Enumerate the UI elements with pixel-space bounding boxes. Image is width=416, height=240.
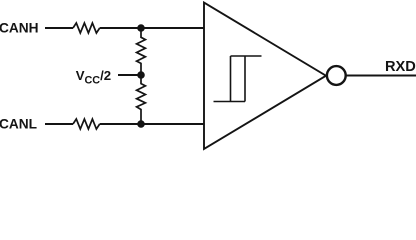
svg-text:CANL: CANL <box>0 117 37 132</box>
svg-text:VCC/2: VCC/2 <box>76 68 111 86</box>
resistor R2 (CANL series) <box>73 119 100 129</box>
svg-text:RXD: RXD <box>385 59 416 75</box>
op-amp U1 comparator triangle <box>204 3 326 149</box>
node CANL label <box>0 117 37 132</box>
resistor R1 (CANH series) <box>73 23 100 33</box>
node A junction dot (CANH) <box>137 24 145 32</box>
resistor R3 (upper divider half) <box>137 28 146 75</box>
node RXD label <box>385 59 416 75</box>
inversion bubble <box>327 66 346 85</box>
wire CANL lead <box>45 123 73 125</box>
wire VCC/2 stub <box>118 74 141 76</box>
node CANH label <box>0 21 39 36</box>
resistor R4 (lower divider half) <box>137 75 146 124</box>
node VCC/2 label <box>76 68 111 86</box>
wire R1 to comparator input <box>100 27 204 29</box>
wire R2 to comparator input <box>100 123 204 125</box>
wire RXD output <box>347 75 416 77</box>
wire CANH lead <box>45 27 73 29</box>
node VCC/2 junction dot <box>137 71 145 79</box>
svg-text:CANH: CANH <box>0 21 39 36</box>
node B junction dot (CANL) <box>137 120 145 128</box>
hysteresis symbol <box>214 56 262 102</box>
